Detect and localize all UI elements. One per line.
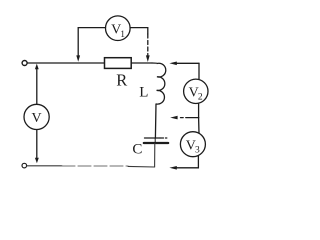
wire right rail V2 bottom <box>198 103 200 117</box>
wire resistor to inductor <box>131 62 152 64</box>
svg-text:3: 3 <box>195 146 200 156</box>
arrow V-branch bottom <box>35 158 39 164</box>
wire top (terminal to resistor) <box>27 62 104 64</box>
terminal top-left <box>22 61 27 66</box>
voltmeter V3 <box>180 132 205 157</box>
arrow V1 left onto top wire <box>76 55 80 61</box>
voltmeter V1 <box>106 16 131 41</box>
voltmeter V <box>24 104 49 129</box>
inductor L <box>152 63 166 104</box>
svg-text:C: C <box>132 142 142 158</box>
svg-text:R: R <box>116 71 127 90</box>
capacitor C top plate <box>145 137 161 139</box>
wire V-branch upper <box>36 68 38 104</box>
svg-text:V: V <box>32 111 42 126</box>
wire right rail V3 top <box>198 118 200 134</box>
wire bottom <box>27 165 62 167</box>
svg-text:1: 1 <box>120 30 125 40</box>
wire inductor to capacitor <box>154 104 157 138</box>
svg-text:L: L <box>139 85 148 101</box>
wire V-branch lower <box>36 130 38 159</box>
node junction V-branch on top wire <box>35 64 39 70</box>
probe arrow top (to node R-L) <box>176 62 199 64</box>
wire right rail V2 top <box>198 63 200 80</box>
arrow V1 right onto top wire <box>146 55 150 62</box>
voltmeter V2 <box>184 79 208 103</box>
wire V1 left lead <box>78 28 105 56</box>
probe arrow middle (to node L-C) <box>181 117 184 119</box>
resistor R <box>105 58 132 69</box>
capacitor C bottom plate <box>144 142 168 144</box>
probe arrow bottom (to bottom wire) <box>169 166 176 170</box>
svg-text:2: 2 <box>198 93 203 103</box>
wire V1 right lead <box>130 28 148 34</box>
wire capacitor to bottom wire <box>154 139 156 143</box>
wire right rail V3 bottom <box>176 156 198 168</box>
terminal bottom-left <box>22 163 27 168</box>
